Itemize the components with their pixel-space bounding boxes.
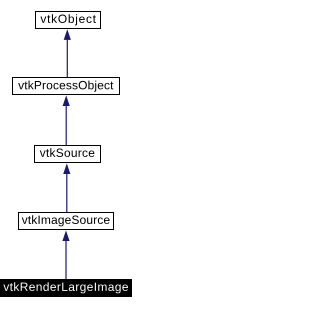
node box vtkObject [36, 12, 101, 29]
node box vtkRenderLargeImage (current class, filled) [1, 280, 132, 297]
wire arrow vtkImageSource to vtkSource [63, 163, 70, 212]
inheritance diagram: vtkRenderLargeImage class hierarchy [0, 0, 136, 309]
wire arrow vtkSource to vtkProcessObject [63, 95, 70, 145]
wire arrow vtkRenderLargeImage to vtkImageSource [62, 230, 69, 279]
node box vtkSource [35, 146, 101, 163]
node box vtkImageSource [19, 213, 114, 230]
node box vtkProcessObject [13, 78, 120, 95]
wire arrow vtkProcessObject to vtkObject [64, 29, 71, 77]
